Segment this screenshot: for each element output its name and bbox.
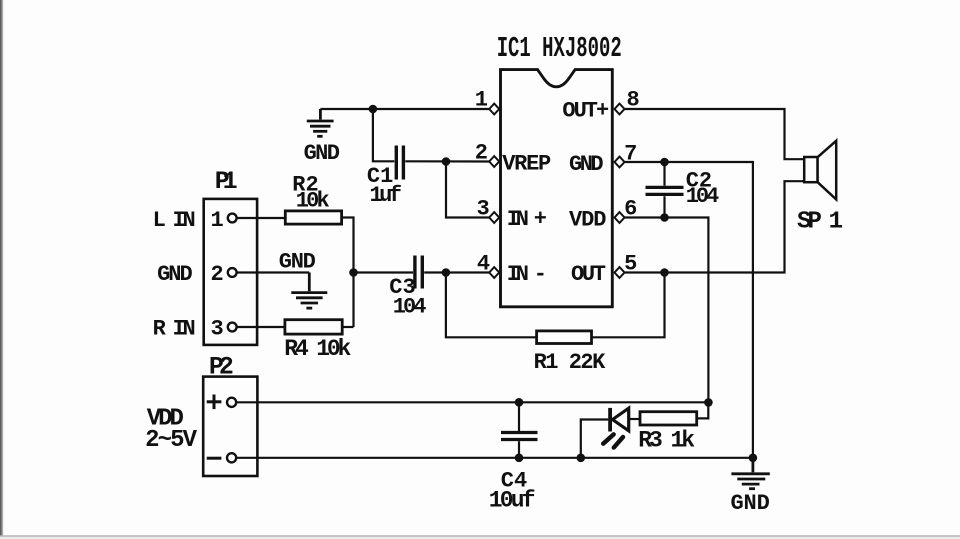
- ground GND (top, pin1): [307, 109, 334, 136]
- svg-text:4: 4: [477, 252, 490, 277]
- wire LED anode to R3: [629, 418, 640, 420]
- node junction VDD-/C4: [515, 454, 524, 463]
- connector P1 box: [204, 199, 257, 345]
- wire P1 pin1 to R2: [237, 217, 286, 219]
- svg-text:VDD: VDD: [569, 208, 607, 233]
- ground GND (P1 pin2): [291, 273, 327, 309]
- svg-text:GND: GND: [569, 152, 604, 177]
- svg-text:GND: GND: [157, 262, 193, 287]
- capacitor C1: [396, 146, 403, 180]
- svg-text:10uf: 10uf: [489, 488, 536, 514]
- svg-text:104: 104: [393, 295, 427, 320]
- node junction pin7/C2: [660, 158, 669, 167]
- P1 pin 3 circle: [228, 323, 237, 332]
- pin 6: [615, 212, 625, 223]
- resistor R3: [640, 412, 697, 425]
- pin 7: [615, 157, 625, 168]
- svg-text:OUT+: OUT+: [562, 99, 609, 124]
- wire pin1 stub: [320, 108, 489, 110]
- wire pin2-pin3 tie: [446, 162, 490, 218]
- node junction VDD+/C4: [515, 398, 524, 407]
- svg-text:8: 8: [627, 88, 640, 113]
- IC U1 body: [501, 70, 613, 307]
- wire P1 pin3 to R4: [237, 326, 285, 328]
- svg-text:7: 7: [624, 142, 637, 167]
- node junction pin1/GND/C1: [369, 105, 378, 114]
- node junction VDD+/R3/pin6: [704, 398, 713, 407]
- wire node A vertical to C1: [373, 109, 394, 161]
- svg-text:P1: P1: [215, 167, 238, 196]
- pin 5: [615, 267, 625, 278]
- pin 8: [615, 104, 625, 115]
- svg-text:3: 3: [477, 197, 490, 222]
- svg-text:1: 1: [475, 88, 488, 113]
- pin 2: [489, 156, 499, 167]
- wire pin6 to VDD column: [625, 218, 709, 403]
- P1 pin 1 circle: [228, 214, 237, 223]
- IC pin diamonds: [489, 104, 624, 278]
- wire R3 to VDD column: [697, 402, 709, 418]
- resistor R1: [537, 331, 592, 344]
- bottom edge line: [0, 536, 960, 539]
- svg-text:104: 104: [686, 184, 720, 209]
- svg-text:SP 1: SP 1: [797, 209, 843, 236]
- P2 plus circle: [227, 398, 236, 407]
- wire P1 pin2 to GND: [237, 271, 310, 273]
- svg-text:OUT: OUT: [571, 262, 606, 287]
- svg-text:R4 10k: R4 10k: [284, 336, 351, 362]
- capacitor C2: [646, 162, 684, 218]
- speaker SP1 box: [804, 157, 817, 182]
- wire R4 right to node column: [342, 326, 353, 328]
- svg-text:2~5V: 2~5V: [145, 427, 197, 454]
- ground GND (bottom right): [731, 458, 769, 489]
- pin 1: [489, 104, 499, 115]
- svg-text:3: 3: [211, 317, 224, 342]
- node junction pin6/C2: [660, 213, 669, 222]
- svg-text:6: 6: [624, 197, 637, 222]
- svg-text:VREP: VREP: [502, 152, 551, 177]
- wire pin8 to speaker top: [625, 109, 805, 159]
- wire LED cathode branch: [581, 420, 609, 458]
- LED D1 emission arrows: [603, 434, 623, 447]
- pin 4: [489, 267, 499, 278]
- wire pin7 stub to GND column: [625, 162, 753, 458]
- svg-text:GND: GND: [304, 141, 340, 166]
- wire C1 to pin2: [405, 160, 489, 162]
- wire VDD- rail: [237, 457, 753, 459]
- node junction VDD-/LED: [577, 454, 586, 463]
- connector P2 box: [203, 377, 257, 476]
- wire R2 right to node column: [342, 218, 354, 328]
- svg-text:IC1 HXJ8002: IC1 HXJ8002: [497, 32, 622, 65]
- node junction C3/pin4/R1: [442, 268, 451, 277]
- wire C3 to pin4: [424, 271, 489, 273]
- P2 minus sign: [207, 457, 222, 460]
- P2 plus sign: [207, 395, 222, 410]
- speaker SP1 horn: [818, 141, 837, 200]
- resistor R4: [285, 320, 342, 334]
- P2 minus circle: [227, 453, 236, 462]
- svg-text:IN +: IN +: [507, 207, 547, 232]
- svg-text:P2: P2: [209, 353, 234, 382]
- pin 3: [489, 212, 499, 223]
- capacitor C3: [415, 256, 422, 289]
- svg-text:10k: 10k: [296, 189, 330, 214]
- node junction R2/R4/C3: [349, 268, 358, 277]
- node junction C1/pin2/pin3: [442, 157, 451, 166]
- svg-text:GND: GND: [279, 250, 316, 275]
- LED D1 triangle: [613, 408, 629, 431]
- svg-text:1uf: 1uf: [370, 183, 403, 208]
- node junction VDD-/pin7/GND: [749, 454, 758, 463]
- resistor R2: [285, 211, 341, 224]
- svg-text:GND: GND: [731, 491, 770, 516]
- connector pin circles: [227, 214, 237, 463]
- svg-text:R IN: R IN: [153, 317, 196, 342]
- LED D1 cathode bar: [608, 408, 612, 432]
- P1 pin 2 circle: [228, 268, 237, 277]
- svg-text:IN -: IN -: [507, 262, 547, 287]
- node junction pin5/R1: [660, 268, 669, 277]
- wire VDD+ rail: [237, 401, 709, 403]
- wire feedback loop left/bottom: [446, 273, 537, 338]
- svg-text:R1 22K: R1 22K: [534, 350, 606, 375]
- svg-text:2: 2: [475, 141, 488, 166]
- svg-text:L IN: L IN: [153, 208, 196, 233]
- svg-text:1: 1: [211, 208, 224, 233]
- wire node to C3: [354, 271, 414, 273]
- capacitor C4: [501, 402, 538, 458]
- svg-text:R3 1k: R3 1k: [638, 428, 695, 454]
- svg-text:2: 2: [211, 262, 224, 287]
- wire feedback loop right: [592, 273, 665, 338]
- wire pin5 to speaker bottom: [625, 181, 805, 272]
- svg-text:5: 5: [624, 252, 637, 277]
